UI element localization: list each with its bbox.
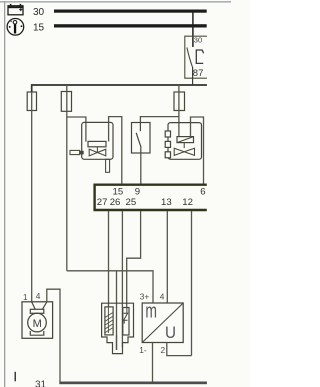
fuse S2 lead down xyxy=(66,85,68,271)
wire pin 2 loop to ECU pin 12 xyxy=(167,343,192,356)
ground bus 31 xyxy=(59,382,207,385)
valve N18 connector pad 3 xyxy=(165,152,170,158)
svg-text:26: 26 xyxy=(110,197,121,208)
wire switch bottom to ECU pin 9 xyxy=(140,153,142,184)
svg-text:9: 9 xyxy=(135,186,140,197)
bus 15 xyxy=(54,24,207,27)
ECU connector box J361 (open at right) xyxy=(95,185,207,210)
svg-text:30: 30 xyxy=(194,36,202,45)
valve N18 coil right terminal up to ECU pin 6 xyxy=(191,117,204,184)
wire bus30 to relay terminal 30 xyxy=(192,11,194,47)
fuel pump entry diagonals xyxy=(32,302,47,309)
wire ECU pin 13 to air mass meter pin 4 xyxy=(166,211,168,303)
fuse S3 lead through node to valve2 coil xyxy=(178,85,180,137)
wire ECU pin 27 to sensor coil xyxy=(108,211,110,307)
svg-text:15: 15 xyxy=(113,186,124,197)
relay J17 box (cut at right edge) xyxy=(185,36,207,78)
ground tick left xyxy=(15,372,17,382)
wire ECU pin 26 into sensor xyxy=(121,211,123,347)
valve N18 connector pad 2 xyxy=(165,141,170,147)
valve N80 bowtie xyxy=(89,149,106,156)
sensor Z element xyxy=(123,308,129,336)
svg-text:m: m xyxy=(145,301,157,323)
sensor coil lead inside xyxy=(107,307,109,333)
svg-text:25: 25 xyxy=(126,197,137,208)
fuel pump brush top xyxy=(30,309,44,313)
sensor coil element xyxy=(105,307,113,335)
switch top terminal stub xyxy=(139,123,141,132)
wire ECU pin 12 down xyxy=(191,211,193,356)
page left border xyxy=(4,1,5,387)
air mass meter G70 box xyxy=(142,303,183,343)
svg-text:2: 2 xyxy=(161,345,166,355)
svg-text:1: 1 xyxy=(23,292,28,302)
fuse S3 xyxy=(174,92,185,111)
wire relay 87 down to rail xyxy=(192,67,194,85)
valve N80 coil right terminal wire up to ECU pin 15 xyxy=(109,117,122,184)
fuse S2 xyxy=(61,92,71,112)
ignition key symbol (terminal 15) xyxy=(7,19,24,36)
svg-text:U: U xyxy=(165,323,176,342)
supply rail from fuse S2 to air mass meter 3+ xyxy=(67,271,153,303)
svg-text:13: 13 xyxy=(161,197,172,208)
switch F box xyxy=(132,123,151,154)
valve N18 stem xyxy=(183,143,185,149)
svg-text:12: 12 xyxy=(182,197,193,208)
valve N18 bowtie xyxy=(174,148,194,155)
switch blade xyxy=(136,133,141,148)
fuse S1 lead to fuel pump xyxy=(31,92,33,302)
svg-text:87: 87 xyxy=(193,68,204,79)
svg-text:15: 15 xyxy=(33,23,45,34)
valve N80 outer box xyxy=(82,122,113,159)
air mass meter diagonal xyxy=(142,303,183,343)
sensor coil hatching xyxy=(105,313,112,333)
wire pin 1- to ground bus xyxy=(152,343,154,383)
valve N80 tab pad xyxy=(80,151,84,155)
branch rail to sensor xyxy=(116,271,118,350)
valve N18 coil with diagonal xyxy=(177,137,194,143)
page top border xyxy=(0,1,231,3)
switch bottom terminal stub xyxy=(140,147,142,153)
valve N80 coil xyxy=(88,141,106,146)
bus 30 xyxy=(54,10,207,13)
sensor G housing with plug xyxy=(102,303,134,353)
svg-text:27: 27 xyxy=(97,197,108,208)
svg-text:6: 6 xyxy=(200,186,205,197)
node line switch to fuse S3 lead xyxy=(140,117,179,123)
svg-text:M: M xyxy=(33,318,42,330)
svg-text:4: 4 xyxy=(160,292,165,302)
relay contact bracket symbol xyxy=(196,50,203,63)
fuel pump V54 box xyxy=(22,302,53,339)
battery symbol (terminal 30) xyxy=(8,4,23,15)
sensor Z symbol xyxy=(124,308,128,324)
relay contact blade xyxy=(187,48,193,67)
fuel pump terminal 4 wire to ground bus xyxy=(47,289,60,382)
svg-text:4: 4 xyxy=(36,291,41,301)
branch fuse S2 to valve N80 coil xyxy=(67,117,86,142)
fuel pump brush bottom xyxy=(30,331,44,335)
fuel pump motor circle xyxy=(28,313,47,332)
svg-text:1-: 1- xyxy=(139,345,147,355)
wire ECU pin 25 jog to sensor Z element xyxy=(127,211,141,308)
valve N18 outer box xyxy=(168,123,202,160)
valve N80 bottom port stub xyxy=(106,159,110,172)
valve N18 connector pad 1 xyxy=(165,131,170,137)
valve N80 stem xyxy=(96,147,98,153)
svg-text:30: 30 xyxy=(33,7,45,18)
sensor inner pin wire xyxy=(116,335,118,350)
valve N80 left tab xyxy=(70,150,80,154)
fuse S1 xyxy=(27,92,36,111)
svg-text:31: 31 xyxy=(35,380,47,387)
87 supply rail xyxy=(32,85,207,93)
